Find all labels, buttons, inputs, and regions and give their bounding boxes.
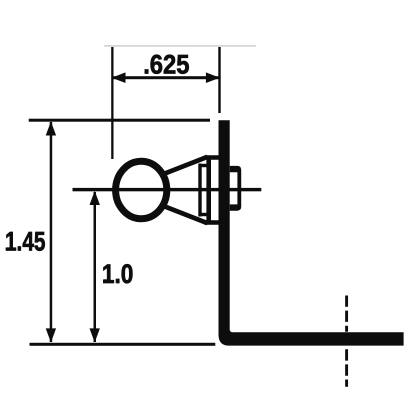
svg-text:.625: .625 xyxy=(143,50,189,80)
stud end with groove (right of plate) xyxy=(230,166,242,211)
svg-text:1.45: 1.45 xyxy=(5,227,45,257)
flange left face line xyxy=(206,157,211,224)
ball of ball stud xyxy=(116,161,167,218)
foot serif of digit 1 in 1.0 xyxy=(103,279,109,282)
dashed vertical centerline on base xyxy=(345,296,348,332)
extension line left of .625 (ball left edge) xyxy=(111,47,113,159)
extension line right of .625 (plate face) xyxy=(218,47,220,113)
flange bottom edge xyxy=(205,220,219,225)
dimension line .625 with arrowheads xyxy=(112,72,220,83)
dimension line 1.0 (vertical) with arrowheads xyxy=(90,191,100,343)
flange top edge xyxy=(205,155,219,160)
cone neck upper edge xyxy=(161,157,208,175)
svg-text:1.0: 1.0 xyxy=(102,259,134,289)
bracket: vertical plate and horizontal base (L-shape) xyxy=(219,120,404,345)
dashed vertical centerline lower part xyxy=(345,349,348,387)
horizontal centerline through ball stud xyxy=(73,188,262,191)
stud step top edge xyxy=(199,164,209,167)
bottom extension line (base of bracket) xyxy=(30,343,216,346)
cone neck lower edge xyxy=(161,205,208,223)
dimension line 1.45 (vertical, left) with arrowheads xyxy=(46,121,56,342)
cone base face line xyxy=(198,164,201,217)
top extension line for 1.45 xyxy=(29,119,210,122)
foot serif of digit 1 in 1.45 xyxy=(6,248,12,251)
stud step bottom edge xyxy=(199,213,209,216)
faint scan artifact line xyxy=(104,45,256,47)
